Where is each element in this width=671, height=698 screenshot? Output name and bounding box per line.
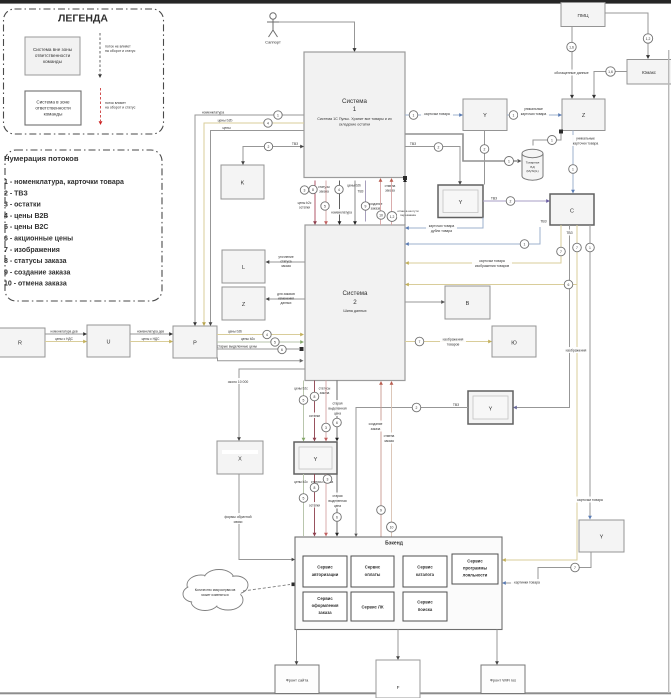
svg-text:Система: Система [343, 290, 368, 297]
box X [217, 441, 263, 474]
wire остатки red [325, 381, 327, 439]
svg-text:F: F [397, 685, 400, 690]
svg-text:цены с НДС: цены с НДС [142, 337, 160, 341]
svg-text:Y: Y [459, 200, 463, 206]
wire P to Система2 цены b2b (yellow) [217, 334, 301, 336]
box ПМЦ [561, 3, 605, 27]
svg-text:может изменяться: может изменяться [201, 593, 228, 597]
svg-text:цены с НДС: цены с НДС [55, 337, 73, 341]
svg-text:авторизации: авторизации [312, 572, 339, 577]
flow numbering border [5, 150, 162, 301]
svg-text:5: 5 [303, 497, 305, 501]
wire создание заказа (violet-gray) [365, 181, 367, 222]
svg-text:(MySQL): (MySQL) [526, 169, 538, 173]
svg-text:7 - изображения: 7 - изображения [4, 246, 60, 254]
svg-text:Количество микросервисов: Количество микросервисов [195, 588, 236, 592]
svg-text:L: L [242, 265, 245, 271]
svg-text:Сервис: Сервис [317, 565, 333, 570]
top black bar [0, 0, 671, 4]
svg-text:уникальные: уникальные [524, 107, 543, 111]
svg-text:7: 7 [560, 250, 562, 254]
svg-text:заказа: заказа [371, 427, 381, 431]
wire Система2 corner up to Система1 corner [404, 181, 406, 225]
svg-text:отмена: отмена [385, 184, 396, 188]
wire статусы заказа maroon [314, 381, 316, 439]
svg-text:1: 1 [508, 160, 510, 164]
svg-text:Y: Y [600, 535, 604, 541]
box Сервис программы лояльности [452, 554, 498, 584]
svg-text:2 - ТВЗ: 2 - ТВЗ [4, 190, 28, 197]
svg-text:дубли товара: дубли товара [431, 229, 452, 233]
svg-text:3: 3 [325, 426, 327, 430]
wire цены b2c остатки (red) [325, 181, 327, 222]
svg-text:P: P [193, 341, 197, 347]
box U [87, 325, 130, 357]
svg-text:связи: связи [234, 520, 243, 524]
svg-text:формы обратной: формы обратной [224, 515, 251, 519]
svg-text:ТВЗ: ТВЗ [410, 142, 416, 146]
wire Z elbow to cylinder [533, 132, 561, 146]
svg-text:1: 1 [513, 114, 515, 118]
wire отмена заказа red up [391, 384, 393, 537]
svg-text:6 - акционные цены: 6 - акционные цены [4, 236, 73, 243]
svg-text:Бэкенд: Бэкенд [385, 541, 404, 547]
svg-text:цена: цена [334, 412, 341, 416]
box P [173, 326, 217, 358]
svg-text:5 - цены В2С: 5 - цены В2С [4, 224, 48, 231]
svg-text:7: 7 [419, 340, 421, 344]
svg-text:перезаказа: перезаказа [400, 213, 416, 217]
legend flow impact arrow (red) [100, 88, 102, 121]
wire Z down to C уникальные карточки [572, 131, 574, 191]
cylinder Товарная БД MySQL [522, 149, 543, 180]
svg-text:ТВЗ: ТВЗ [566, 231, 572, 235]
svg-text:1: 1 [413, 114, 415, 118]
box L [222, 250, 265, 283]
svg-text:старые выделенные цены: старые выделенные цены [217, 344, 258, 348]
svg-text:5: 5 [274, 341, 276, 345]
wire Юмакс to Z [594, 72, 627, 96]
wire Y2 down to Система2 карточки дубли [409, 218, 484, 229]
svg-text:10: 10 [390, 526, 394, 530]
svg-text:Юмакс: Юмакс [642, 70, 657, 75]
svg-text:ТВЗ: ТВЗ [453, 403, 459, 407]
svg-text:Y: Y [489, 407, 493, 413]
wire Система2 to L уточнение статуса [269, 261, 306, 263]
svg-text:1: 1 [524, 243, 526, 247]
svg-text:карточки товара: карточки товара [577, 498, 603, 502]
svg-text:1: 1 [277, 114, 279, 118]
svg-text:Сервис: Сервис [417, 565, 433, 570]
svg-text:заказа: заказа [371, 207, 381, 211]
box Z right [562, 99, 605, 131]
svg-text:товаров: товаров [447, 343, 460, 347]
box Система 1 [304, 52, 405, 178]
wire R to U prices [45, 341, 84, 343]
wire Система2 to B [405, 301, 442, 303]
svg-text:2: 2 [484, 148, 486, 152]
svg-text:Сервис: Сервис [317, 596, 333, 601]
box Сервис оформления заказа [303, 592, 347, 621]
wire C area to Система2 blue y244 [409, 227, 541, 244]
svg-text:ТВЗ: ТВЗ [358, 190, 364, 194]
wire C down to Y lower right карточки товара [589, 225, 591, 516]
wire Бэкенд to F [397, 630, 399, 657]
svg-text:цены b2c: цены b2c [294, 387, 308, 391]
wire Y2 to C ТВЗ [483, 200, 547, 202]
svg-text:Фронт сайта: Фронт сайта [286, 678, 309, 683]
svg-text:Нумерация потоков: Нумерация потоков [4, 154, 79, 163]
svg-text:на оборот и статус: на оборот и статус [105, 49, 136, 53]
svg-text:3: 3 [327, 478, 329, 482]
svg-text:статусы: статусы [319, 387, 331, 391]
legend box external system [25, 37, 80, 75]
svg-text:заказа: заказа [385, 189, 395, 193]
svg-text:номенклатура дев: номенклатура дев [137, 330, 164, 334]
svg-text:ответственности: ответственности [35, 106, 71, 111]
svg-text:на оборот и статус: на оборот и статус [105, 106, 136, 110]
svg-text:C: C [570, 209, 574, 215]
box Z left [222, 287, 265, 320]
svg-text:10: 10 [379, 214, 383, 218]
wire Система2 to X [239, 369, 305, 438]
svg-text:картинки товара: картинки товара [514, 581, 540, 585]
wire Y lower to Бэкенд картинки товара [506, 552, 592, 583]
wire ТВЗ Система1 to Y2 [405, 147, 460, 182]
wire X down to Бэкенд [239, 474, 292, 560]
box Система 2 [305, 225, 405, 381]
svg-text:3 - остатки: 3 - остатки [4, 202, 41, 209]
svg-text:Y: Y [314, 457, 318, 463]
svg-text:Сервис ЛК: Сервис ЛК [361, 605, 383, 610]
svg-text:Фронт WiFi ios: Фронт WiFi ios [490, 678, 516, 683]
node circle left edge [300, 186, 308, 194]
svg-text:6: 6 [568, 283, 570, 287]
svg-text:создание: создание [369, 422, 383, 426]
svg-text:1,6: 1,6 [569, 46, 574, 50]
wire Y to Z уникальные карточки [507, 114, 559, 116]
svg-text:5: 5 [324, 205, 326, 209]
svg-text:Сервис: Сервис [467, 559, 483, 564]
svg-text:3: 3 [304, 189, 306, 193]
svg-text:9: 9 [380, 509, 382, 513]
svg-text:Y: Y [483, 113, 487, 119]
wire P bottom to Система2 [218, 358, 301, 361]
wire C down yellow карточки изображения to Система2 [409, 225, 562, 263]
wire Система1 left nomenclature down to P [195, 115, 304, 323]
box Y top [463, 99, 507, 131]
svg-text:команды: команды [44, 112, 63, 117]
svg-text:4: 4 [338, 188, 340, 192]
svg-text:обогащенные данные: обогащенные данные [554, 71, 588, 75]
svg-text:Сервис: Сервис [365, 565, 381, 570]
svg-text:карточки товара: карточки товара [521, 112, 547, 116]
svg-text:6: 6 [281, 348, 283, 352]
svg-text:складские остатки: складские остатки [339, 123, 370, 127]
svg-text:остатки: остатки [309, 503, 320, 507]
svg-text:1: 1 [353, 106, 357, 113]
svg-text:5: 5 [303, 399, 305, 403]
wire C down ТВЗ to Y mid right [517, 225, 570, 408]
svg-text:поток не влияет: поток не влияет [105, 45, 131, 49]
svg-text:9 - создание заказа: 9 - создание заказа [4, 269, 71, 276]
node circles отмена pair [377, 211, 385, 219]
svg-text:поток влияет: поток влияет [105, 101, 126, 105]
svg-text:старая: старая [332, 402, 342, 406]
svg-text:Ю: Ю [511, 341, 517, 347]
wire отмена заказа up arrow 2 (red) [391, 181, 393, 225]
svg-text:2: 2 [416, 406, 418, 410]
svg-text:Система в зоне: Система в зоне [36, 100, 70, 105]
svg-text:программы: программы [463, 566, 487, 571]
wire R to U nomenclature [45, 333, 84, 335]
wire Бэкенд to Фронт сайта [296, 630, 298, 662]
svg-text:карточки товара: карточки товара [424, 112, 450, 116]
box Ю [492, 326, 536, 357]
svg-text:отмена: отмена [384, 434, 395, 438]
svg-text:изображения: изображения [566, 349, 587, 353]
box Сервис ЛК [351, 592, 394, 621]
svg-text:2: 2 [438, 146, 440, 150]
svg-text:8 - статусы заказа: 8 - статусы заказа [4, 258, 67, 265]
svg-text:цены b2b: цены b2b [347, 184, 361, 188]
svg-text:номенклатура: номенклатура [331, 210, 352, 214]
svg-text:выделенная: выделенная [328, 499, 346, 503]
svg-text:Система вне зоны: Система вне зоны [33, 47, 72, 52]
svg-text:оплаты: оплаты [365, 572, 381, 577]
box F [376, 660, 420, 698]
box Сервис поиска [403, 592, 447, 621]
svg-text:ТВЗ: ТВЗ [292, 142, 298, 146]
svg-text:выделенная: выделенная [328, 407, 346, 411]
svg-text:2: 2 [268, 145, 270, 149]
box C [550, 194, 594, 225]
svg-text:номенклатура дев: номенклатура дев [50, 330, 77, 334]
svg-text:оформления: оформления [312, 603, 339, 608]
box Y mid right (double border) [468, 391, 513, 424]
svg-text:6: 6 [336, 516, 338, 520]
wire cloud dashed to Бэкенд [243, 585, 290, 592]
svg-text:2: 2 [353, 299, 357, 306]
box Бэкенд [295, 537, 502, 630]
svg-text:карточки товара: карточки товара [573, 142, 599, 146]
wire ПМЦ right to Юмакс [605, 13, 648, 56]
svg-text:статусы: статусы [318, 185, 330, 189]
wire Система1 thick to cylinder [405, 134, 517, 161]
box Фронт WiFi ios [481, 665, 525, 694]
svg-text:заказа: заказа [320, 391, 330, 395]
wire статусы заказа (maroon) [314, 181, 316, 222]
svg-text:лояльности: лояльности [463, 573, 488, 578]
svg-text:1,2: 1,2 [646, 37, 651, 41]
svg-text:8: 8 [314, 395, 316, 399]
svg-text:1: 1 [551, 139, 553, 143]
svg-text:ЛЕГЕНДА: ЛЕГЕНДА [58, 13, 108, 25]
bottom gray rule [0, 692, 671, 694]
wire ТВЗ from K up into Система 1 [243, 147, 304, 162]
box B [445, 286, 490, 319]
svg-text:Шина данных: Шина данных [343, 309, 366, 313]
svg-text:R: R [18, 341, 22, 347]
svg-text:цены b2c: цены b2c [294, 480, 308, 484]
svg-text:ТВЗ: ТВЗ [491, 196, 497, 200]
svg-text:Саппорт: Саппорт [265, 40, 281, 45]
svg-text:цена: цена [334, 504, 341, 508]
wire цены b2b номенклатура (dark) [339, 181, 341, 222]
svg-text:данных: данных [280, 301, 291, 305]
flow numbering items [4, 179, 124, 288]
legend flow no-impact arrow [99, 33, 101, 74]
svg-text:U: U [107, 340, 111, 346]
box Сервис каталога [403, 556, 447, 587]
svg-text:10 - отмена заказа: 10 - отмена заказа [4, 281, 67, 288]
wire ТВЗ down (gray) [354, 181, 356, 222]
wire Система1 to Y карточки товара [405, 114, 460, 116]
svg-text:1,2: 1,2 [390, 215, 395, 219]
box Y mid left (double border) [294, 442, 337, 474]
actor Саппорт [267, 13, 279, 37]
svg-text:около 10 000: около 10 000 [228, 380, 249, 384]
svg-text:2: 2 [510, 200, 512, 204]
svg-text:6: 6 [336, 421, 338, 425]
legend border [4, 9, 164, 134]
svg-text:4 - цены В2В: 4 - цены В2В [4, 213, 48, 220]
svg-text:каталога: каталога [416, 572, 435, 577]
svg-text:4: 4 [267, 122, 269, 126]
svg-text:8: 8 [314, 486, 316, 490]
wire actor to Система 1 [279, 22, 355, 49]
svg-text:1 - номенклатура, карточки тов: 1 - номенклатура, карточки товара [4, 179, 124, 186]
box Сервис оплаты [351, 556, 394, 587]
wire старая выделенная цена dark down [336, 474, 338, 533]
svg-text:7: 7 [574, 566, 576, 570]
svg-text:остатки: остатки [309, 414, 320, 418]
svg-text:заказа: заказа [319, 190, 329, 194]
svg-text:карточки товара: карточки товара [429, 224, 455, 228]
box Y lower right [579, 520, 624, 552]
svg-text:изменения: изменения [278, 297, 294, 301]
svg-text:заказа: заказа [384, 439, 394, 443]
svg-text:9: 9 [365, 205, 367, 209]
svg-text:8: 8 [312, 188, 314, 192]
svg-text:номенклатура: номенклатура [202, 111, 224, 115]
svg-text:остатки: остатки [299, 205, 310, 209]
wires Система2 bottom to Y mid-left: цены b2c green [303, 381, 305, 439]
svg-text:K: K [241, 181, 245, 187]
wire Система2 to Z left для заказов [269, 298, 306, 300]
svg-text:Система: Система [342, 98, 367, 105]
wire статусы заказа maroon down [314, 474, 316, 533]
box Фронт сайта [275, 665, 319, 694]
cloud Количество микросервисов [183, 570, 248, 611]
svg-text:Система 1С Пульс. Хранит все т: Система 1С Пульс. Хранит все товары и их [317, 117, 392, 121]
svg-text:для заказов: для заказов [277, 292, 295, 296]
svg-text:4: 4 [266, 333, 268, 337]
svg-text:1: 1 [572, 168, 574, 172]
svg-text:цены b2c: цены b2c [298, 201, 312, 205]
wire ПМЦ down to Z [571, 27, 573, 96]
wire U to P nomenclature [130, 333, 170, 335]
svg-text:B: B [466, 301, 470, 307]
wire Система1 left цены down to P [211, 131, 305, 323]
svg-text:изображения: изображения [443, 338, 464, 342]
wire создание заказа red up [380, 384, 382, 537]
svg-text:уточнение: уточнение [278, 255, 293, 259]
svg-text:заказа: заказа [281, 264, 291, 268]
wire Y mid to elbow ТВЗ and down to Бэкенд [356, 408, 468, 534]
wire остатки red down [325, 474, 327, 533]
svg-text:ПМЦ: ПМЦ [578, 13, 589, 19]
svg-text:цены b2c: цены b2c [241, 337, 255, 341]
svg-text:цены b2b: цены b2b [228, 330, 242, 334]
legend box own system [25, 91, 81, 125]
box Юмакс [627, 60, 671, 85]
wire Y down to Y2 [484, 131, 486, 185]
svg-text:ТВЗ: ТВЗ [540, 220, 546, 224]
svg-text:заказа: заказа [318, 610, 332, 615]
svg-text:изображения товаров: изображения товаров [475, 264, 510, 268]
wire P to Система2 старые выделенные цены [217, 348, 299, 350]
wires Y mid-left down to Бэкенд: цены b2c green [303, 474, 305, 536]
svg-text:Сервис: Сервис [417, 600, 433, 605]
box Y2 (double border) [438, 185, 483, 218]
wire Бэкенд to Фронт WiFi [496, 630, 498, 662]
wire yellow акционные цены to Система2 [409, 284, 578, 286]
svg-text:X: X [238, 457, 242, 463]
wire Система2 to Ю изображения товаров [405, 341, 489, 343]
right frame line [668, 50, 669, 693]
wire Система1 left цены b2b down to P [204, 123, 304, 323]
svg-text:1,6: 1,6 [608, 70, 613, 74]
svg-text:команды: команды [43, 59, 62, 64]
svg-text:поиска: поиска [418, 607, 433, 612]
svg-text:1: 1 [589, 246, 591, 250]
svg-text:цены: цены [222, 126, 231, 130]
wire C down yellow изображения to Бэкенд [506, 225, 578, 560]
wire отмена заказа up arrow 1 (red) [380, 181, 382, 225]
svg-text:ответственности: ответственности [35, 53, 71, 58]
wire P to Система2 цены b2c (green) [217, 341, 301, 343]
svg-text:старая: старая [332, 494, 342, 498]
svg-text:карточки товара: карточки товара [479, 259, 505, 263]
wire старая выделенная цена dark [336, 381, 338, 439]
wire U to P prices [130, 341, 170, 343]
box Сервис авторизации [303, 556, 347, 587]
svg-text:7: 7 [576, 246, 578, 250]
box K [221, 165, 264, 199]
svg-text:уникальные: уникальные [576, 137, 595, 141]
svg-text:статуса: статуса [280, 260, 291, 264]
svg-text:цены b2b: цены b2b [218, 119, 233, 123]
box R [0, 328, 45, 357]
